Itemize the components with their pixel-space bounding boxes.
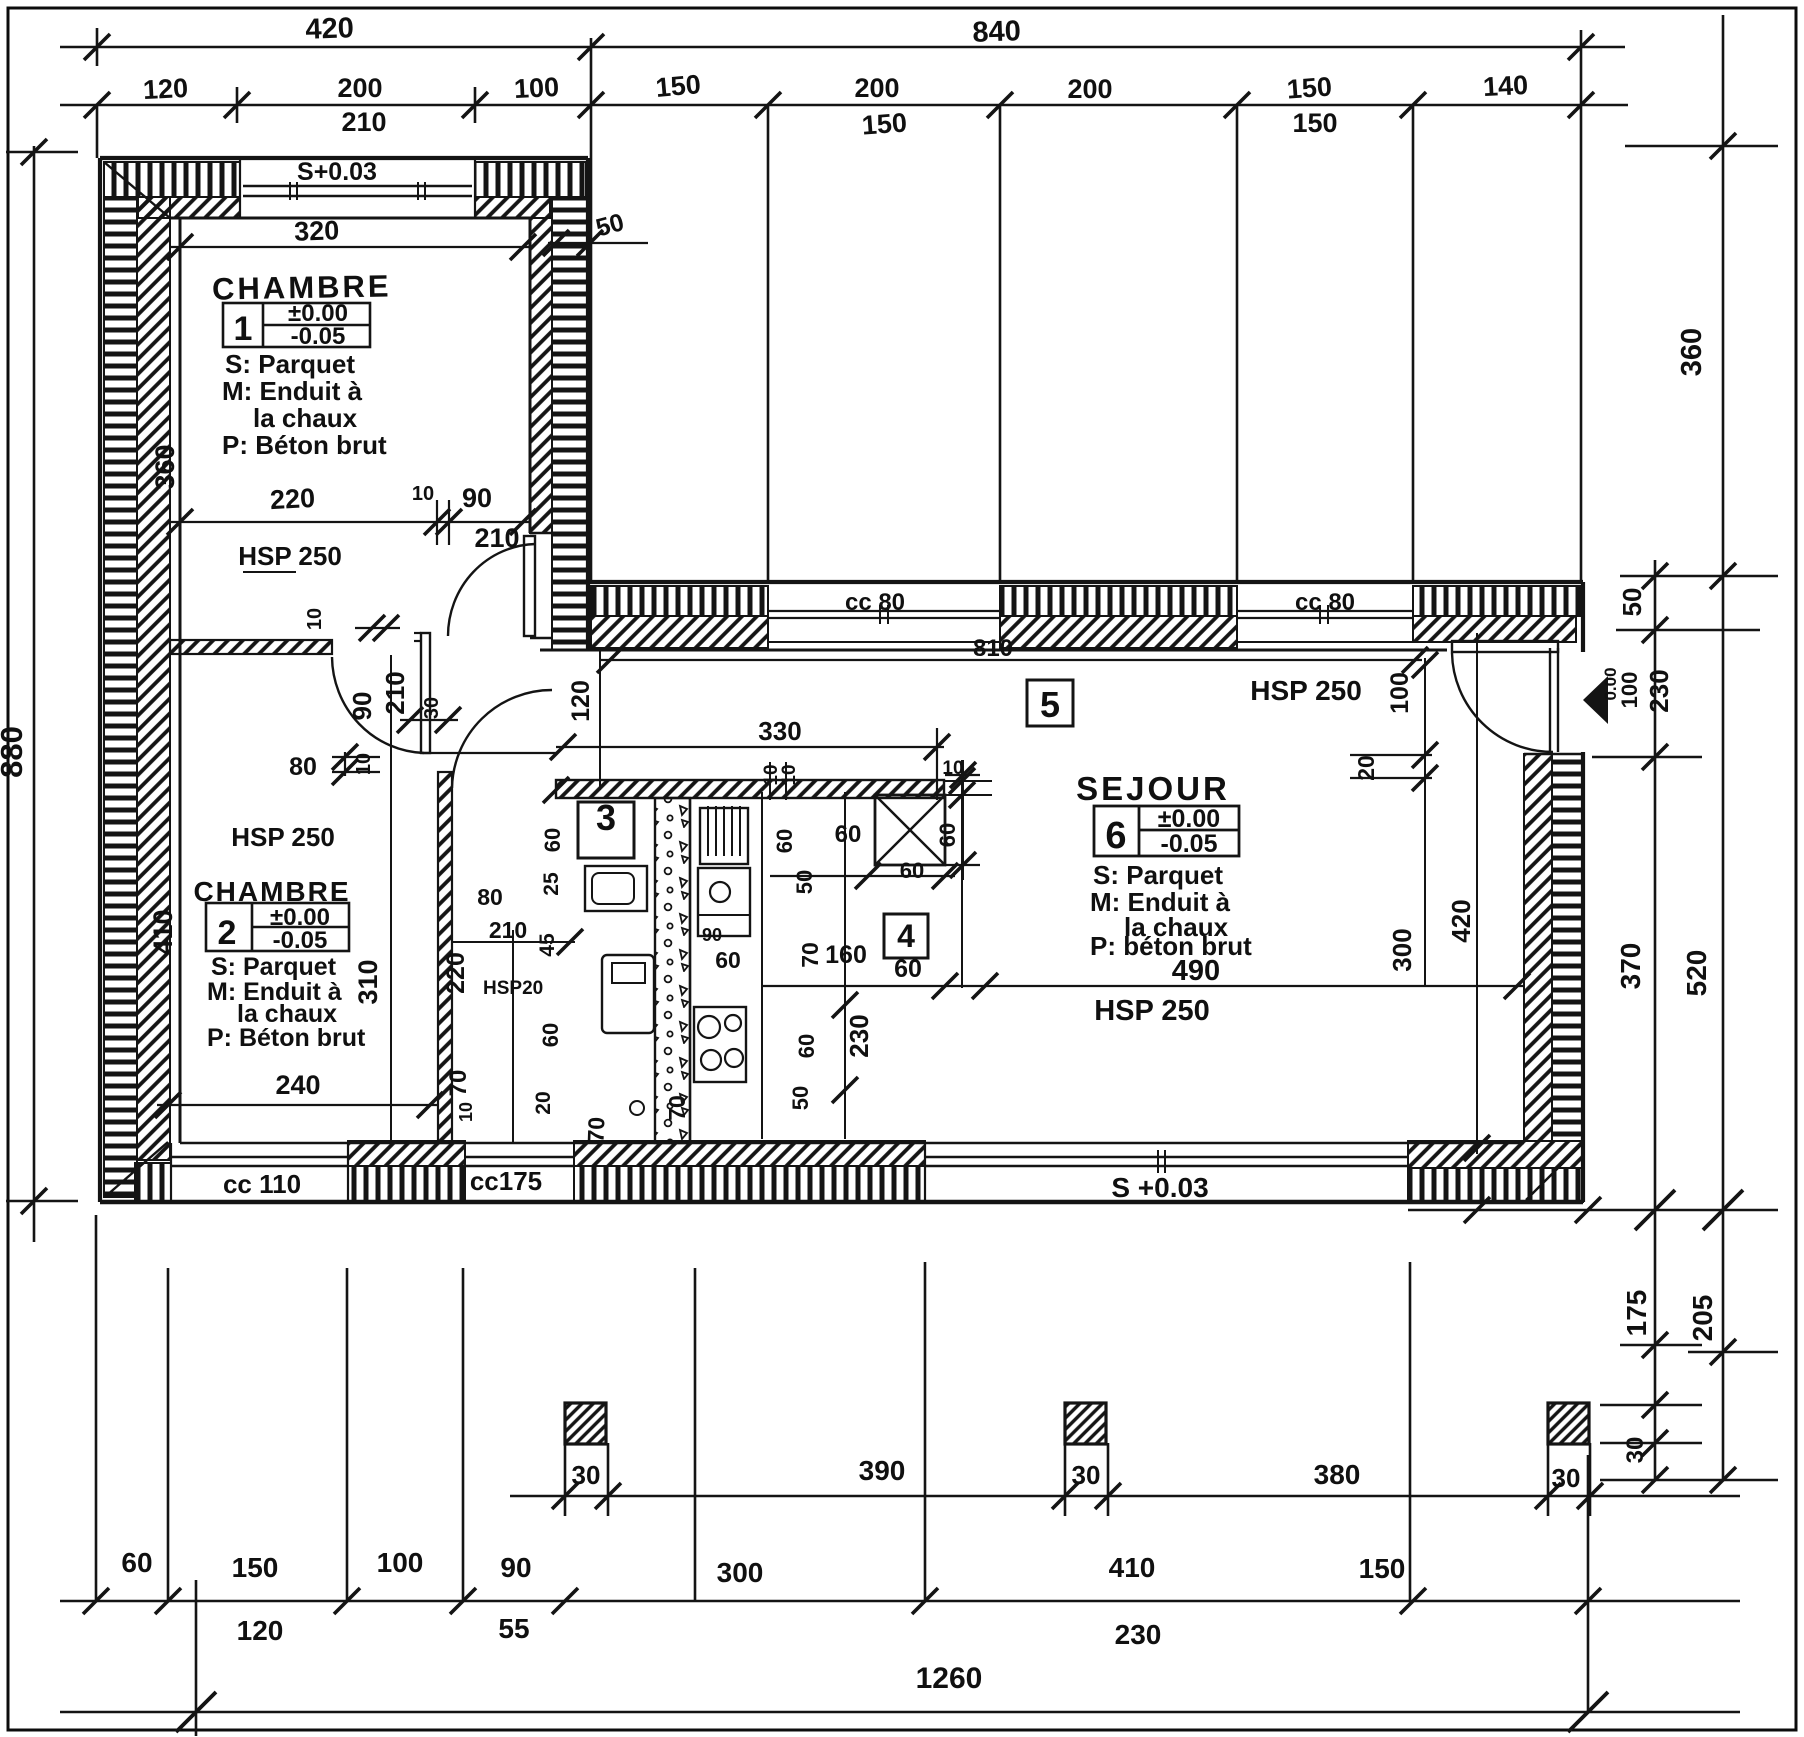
svg-text:M: Enduit à: M: Enduit à <box>222 376 363 406</box>
svg-text:P: Béton brut: P: Béton brut <box>207 1024 366 1052</box>
svg-text:30: 30 <box>421 697 443 719</box>
svg-text:520: 520 <box>1681 950 1712 997</box>
svg-text:70: 70 <box>797 942 823 968</box>
svg-text:360: 360 <box>150 444 180 489</box>
svg-text:210: 210 <box>341 107 386 137</box>
svg-text:840: 840 <box>972 15 1021 49</box>
svg-text:20: 20 <box>532 1091 555 1114</box>
svg-text:50: 50 <box>788 1086 813 1110</box>
svg-text:±0.00: ±0.00 <box>1158 805 1220 833</box>
svg-text:30: 30 <box>1552 1463 1581 1493</box>
svg-text:10: 10 <box>304 608 326 630</box>
svg-text:45: 45 <box>536 933 559 957</box>
svg-text:CHAMBRE: CHAMBRE <box>193 876 350 907</box>
svg-text:60: 60 <box>894 955 922 983</box>
svg-text:150: 150 <box>1292 108 1337 138</box>
svg-text:300: 300 <box>1387 928 1417 971</box>
svg-text:50: 50 <box>792 870 817 894</box>
svg-text:10: 10 <box>779 764 800 785</box>
svg-text:HSP 250: HSP 250 <box>1094 995 1210 1027</box>
svg-text:10: 10 <box>456 1102 476 1122</box>
svg-text:30: 30 <box>1072 1460 1101 1490</box>
svg-text:70: 70 <box>583 1116 610 1142</box>
svg-text:10: 10 <box>412 483 434 505</box>
svg-text:205: 205 <box>1687 1295 1718 1342</box>
svg-text:120: 120 <box>142 73 189 105</box>
svg-text:10: 10 <box>942 758 963 779</box>
svg-text:cc 80: cc 80 <box>845 589 905 616</box>
svg-text:90: 90 <box>347 692 377 721</box>
svg-text:-0.05: -0.05 <box>291 323 346 350</box>
svg-text:cc 110: cc 110 <box>223 1169 301 1199</box>
svg-text:330: 330 <box>758 716 801 746</box>
svg-text:5: 5 <box>1040 684 1060 725</box>
svg-text:100: 100 <box>377 1547 424 1578</box>
svg-text:150: 150 <box>861 107 908 140</box>
svg-text:S +0.03: S +0.03 <box>1111 1172 1208 1203</box>
svg-text:140: 140 <box>1482 70 1529 102</box>
svg-text:SEJOUR: SEJOUR <box>1076 770 1230 807</box>
svg-text:90: 90 <box>462 483 492 513</box>
svg-text:120: 120 <box>567 680 595 722</box>
svg-text:30: 30 <box>572 1460 601 1490</box>
svg-text:230: 230 <box>1115 1619 1162 1650</box>
svg-text:150: 150 <box>1286 71 1333 104</box>
svg-text:60: 60 <box>935 823 960 847</box>
svg-text:420: 420 <box>1446 899 1476 942</box>
svg-text:390: 390 <box>859 1455 906 1486</box>
svg-text:50: 50 <box>1617 588 1647 617</box>
svg-text:60: 60 <box>900 858 924 883</box>
svg-text:0.00: 0.00 <box>1601 667 1620 700</box>
svg-text:230: 230 <box>1644 669 1674 712</box>
svg-text:-0.05: -0.05 <box>273 927 328 954</box>
svg-text:S: Parquet: S: Parquet <box>1093 860 1223 890</box>
svg-text:810: 810 <box>973 635 1013 662</box>
svg-text:cc 80: cc 80 <box>1295 589 1355 616</box>
svg-text:60: 60 <box>794 1034 819 1058</box>
svg-text:HSP 250: HSP 250 <box>238 541 342 571</box>
svg-text:-0.05: -0.05 <box>1161 830 1218 858</box>
svg-text:1: 1 <box>234 310 253 348</box>
svg-text:4: 4 <box>897 918 915 954</box>
svg-text:20: 20 <box>1353 755 1379 781</box>
svg-text:100: 100 <box>513 72 560 104</box>
svg-text:150: 150 <box>1359 1553 1406 1584</box>
svg-text:S+0.03: S+0.03 <box>297 158 377 186</box>
svg-text:410: 410 <box>1109 1552 1156 1583</box>
svg-text:60: 60 <box>121 1547 152 1578</box>
svg-text:490: 490 <box>1172 955 1220 987</box>
svg-text:P: Béton brut: P: Béton brut <box>222 430 387 460</box>
svg-text:60: 60 <box>538 1023 563 1047</box>
svg-text:200: 200 <box>1067 74 1112 104</box>
svg-text:220: 220 <box>269 483 316 515</box>
svg-text:210: 210 <box>489 917 527 943</box>
svg-text:HSP20: HSP20 <box>483 978 543 999</box>
svg-text:1260: 1260 <box>916 1662 983 1695</box>
svg-text:320: 320 <box>294 215 340 247</box>
svg-text:2: 2 <box>218 914 237 952</box>
svg-text:cc175: cc175 <box>470 1166 542 1196</box>
svg-text:300: 300 <box>717 1557 764 1588</box>
svg-text:10: 10 <box>353 753 375 775</box>
svg-text:370: 370 <box>1615 943 1646 990</box>
svg-text:55: 55 <box>498 1613 529 1644</box>
svg-text:410: 410 <box>148 909 178 954</box>
svg-text:3: 3 <box>596 797 616 838</box>
svg-text:200: 200 <box>854 73 899 103</box>
svg-text:310: 310 <box>353 959 383 1004</box>
svg-text:S: Parquet: S: Parquet <box>225 349 355 379</box>
svg-text:HSP 250: HSP 250 <box>231 822 335 852</box>
svg-text:HSP 250: HSP 250 <box>1250 675 1362 706</box>
svg-text:90: 90 <box>702 925 722 945</box>
svg-text:60: 60 <box>772 829 797 853</box>
svg-text:420: 420 <box>305 12 354 46</box>
svg-text:60: 60 <box>835 821 862 848</box>
svg-text:6: 6 <box>1105 815 1126 857</box>
svg-text:150: 150 <box>232 1552 279 1583</box>
svg-text:100: 100 <box>1617 672 1642 709</box>
svg-text:200: 200 <box>337 73 382 103</box>
svg-text:90: 90 <box>500 1552 531 1583</box>
svg-text:60: 60 <box>715 947 741 973</box>
svg-text:80: 80 <box>289 753 317 781</box>
svg-text:60: 60 <box>540 828 565 852</box>
svg-text:880: 880 <box>0 726 29 778</box>
svg-text:80: 80 <box>477 884 503 910</box>
svg-text:230: 230 <box>844 1014 874 1057</box>
svg-text:360: 360 <box>1676 328 1708 376</box>
svg-text:70: 70 <box>664 1095 690 1121</box>
svg-text:240: 240 <box>275 1070 320 1100</box>
svg-text:210: 210 <box>474 523 519 553</box>
svg-text:30: 30 <box>1622 1437 1649 1464</box>
svg-text:380: 380 <box>1314 1459 1361 1490</box>
svg-text:220: 220 <box>442 952 470 994</box>
svg-text:150: 150 <box>654 69 702 103</box>
svg-text:120: 120 <box>237 1615 284 1646</box>
svg-text:70: 70 <box>445 1070 472 1097</box>
svg-text:160: 160 <box>825 941 867 969</box>
svg-text:la chaux: la chaux <box>253 403 358 433</box>
svg-text:175: 175 <box>1621 1290 1652 1337</box>
svg-text:S: Parquet: S: Parquet <box>211 953 337 981</box>
svg-text:100: 100 <box>1386 672 1414 714</box>
svg-text:25: 25 <box>540 872 563 896</box>
svg-text:210: 210 <box>380 671 410 714</box>
